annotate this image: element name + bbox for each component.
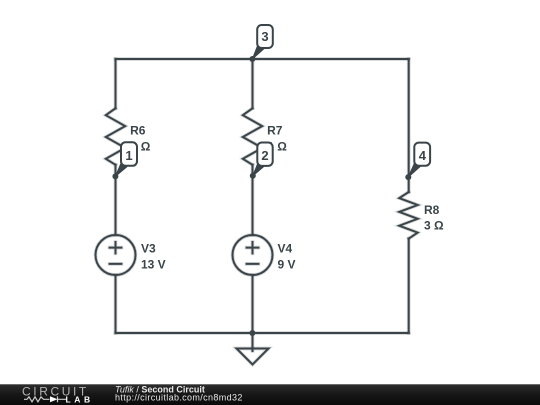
svg-text:R8: R8	[424, 203, 440, 217]
svg-text:1: 1	[125, 148, 132, 163]
svg-text:http://circuitlab.com/cn8md32: http://circuitlab.com/cn8md32	[115, 393, 243, 403]
svg-text:R6: R6	[130, 123, 146, 137]
svg-text:9 V: 9 V	[278, 257, 296, 271]
svg-text:3: 3	[261, 29, 268, 44]
svg-text:2: 2	[261, 148, 268, 163]
svg-text:LAB: LAB	[66, 394, 94, 404]
svg-text:V4: V4	[278, 241, 293, 255]
svg-text:3 Ω: 3 Ω	[424, 219, 444, 233]
svg-text:V3: V3	[141, 241, 156, 255]
svg-text:R7: R7	[267, 123, 283, 137]
svg-text:4: 4	[419, 148, 427, 163]
svg-text:13 V: 13 V	[141, 257, 166, 271]
